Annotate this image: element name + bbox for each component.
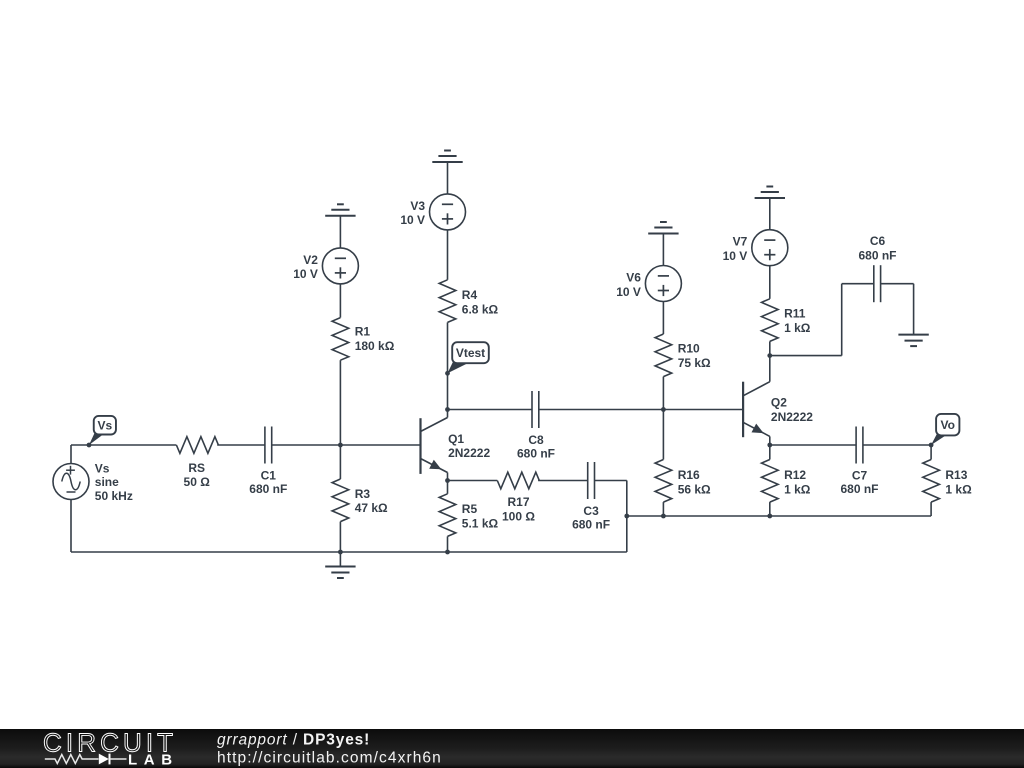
svg-text:Vo: Vo (941, 418, 955, 432)
svg-text:C1: C1 (261, 468, 277, 482)
svg-text:680 nF: 680 nF (517, 447, 555, 461)
svg-text:Vs: Vs (95, 462, 110, 476)
svg-text:10 V: 10 V (616, 285, 641, 299)
svg-text:50 kHz: 50 kHz (95, 489, 133, 503)
svg-text:6.8 kΩ: 6.8 kΩ (462, 302, 499, 316)
svg-text:R16: R16 (678, 468, 700, 482)
svg-text:LAB: LAB (128, 752, 179, 768)
svg-text:R11: R11 (784, 307, 806, 321)
svg-text:C6: C6 (870, 234, 886, 248)
svg-text:V7: V7 (733, 235, 748, 249)
svg-text:Vs: Vs (98, 419, 113, 433)
svg-text:50 Ω: 50 Ω (184, 475, 211, 489)
svg-text:Q2: Q2 (771, 396, 787, 410)
svg-text:2N2222: 2N2222 (771, 410, 813, 424)
svg-text:680 nF: 680 nF (572, 518, 610, 532)
svg-text:56 kΩ: 56 kΩ (678, 482, 711, 496)
svg-text:680 nF: 680 nF (858, 249, 896, 263)
svg-text:1 kΩ: 1 kΩ (945, 482, 972, 496)
svg-text:grrapport / DP3yes!: grrapport / DP3yes! (217, 732, 370, 749)
svg-text:http://circuitlab.com/c4xrh6n: http://circuitlab.com/c4xrh6n (217, 750, 442, 767)
svg-text:5.1 kΩ: 5.1 kΩ (462, 516, 499, 530)
svg-text:75 kΩ: 75 kΩ (678, 356, 711, 370)
svg-text:R12: R12 (784, 468, 806, 482)
svg-text:1 kΩ: 1 kΩ (784, 321, 811, 335)
svg-text:V3: V3 (410, 199, 425, 213)
svg-text:47 kΩ: 47 kΩ (355, 501, 388, 515)
svg-text:RS: RS (188, 461, 205, 475)
svg-text:C3: C3 (583, 504, 599, 518)
svg-text:10 V: 10 V (293, 267, 318, 281)
svg-text:C7: C7 (852, 468, 868, 482)
svg-text:R5: R5 (462, 502, 478, 516)
svg-text:V6: V6 (626, 271, 641, 285)
svg-text:R4: R4 (462, 288, 478, 302)
svg-text:1 kΩ: 1 kΩ (784, 482, 811, 496)
svg-text:680 nF: 680 nF (840, 482, 878, 496)
svg-text:10 V: 10 V (400, 213, 425, 227)
svg-text:R13: R13 (945, 468, 967, 482)
svg-text:Q1: Q1 (448, 432, 464, 446)
svg-text:R3: R3 (355, 487, 371, 501)
svg-text:10 V: 10 V (723, 249, 748, 263)
svg-text:Vtest: Vtest (456, 346, 485, 360)
svg-text:R17: R17 (507, 495, 529, 509)
svg-text:R1: R1 (355, 325, 371, 339)
svg-text:100 Ω: 100 Ω (502, 510, 535, 524)
svg-text:180 kΩ: 180 kΩ (355, 339, 395, 353)
svg-text:R10: R10 (678, 342, 700, 356)
svg-text:C8: C8 (528, 433, 544, 447)
svg-text:2N2222: 2N2222 (448, 446, 490, 460)
svg-text:sine: sine (95, 475, 119, 489)
svg-text:680 nF: 680 nF (249, 482, 287, 496)
svg-text:V2: V2 (303, 253, 318, 267)
